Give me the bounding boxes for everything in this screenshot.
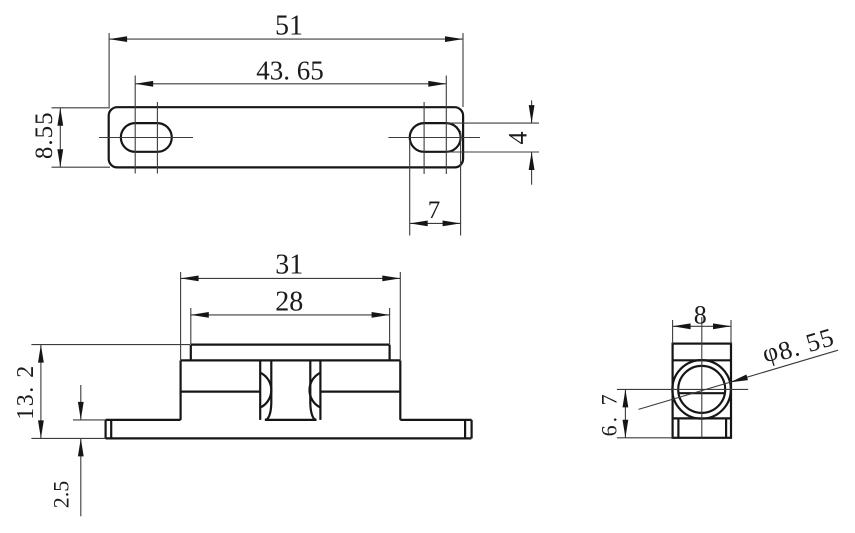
- front slot right wall outer line: [319, 360, 321, 420]
- leader arrowhead: [730, 375, 748, 383]
- side flange line: [673, 417, 731, 419]
- dim 13.2 line: [40, 345, 42, 439]
- front slot bottom line: [265, 419, 317, 421]
- side vertical centerline: [701, 317, 703, 438]
- dim 28 extension right: [389, 308, 391, 344]
- dim 13.2 arrow bottom: [38, 420, 44, 438]
- svg-text:8: 8: [694, 301, 707, 330]
- svg-text:43. 65: 43. 65: [256, 56, 324, 86]
- dim 4 arrow top (points down): [529, 105, 535, 123]
- dim 31 extension left: [180, 272, 182, 360]
- dim 8 extension left: [672, 320, 674, 344]
- front block top line: [181, 359, 401, 361]
- side bottom band right vertical: [725, 418, 727, 437]
- front block right edge: [399, 360, 401, 420]
- front block mid line left: [181, 391, 261, 393]
- dim 28 line: [191, 314, 390, 316]
- leader line phi 8.55: [639, 350, 839, 409]
- dim 6.7 line: [624, 389, 626, 437]
- side outer circle (hole 8.55): [672, 360, 731, 419]
- front slot right wall arc: [310, 373, 321, 408]
- dim 2.5 line upper: [80, 385, 82, 420]
- front top plate right cap: [389, 345, 391, 361]
- front base right step line: [464, 420, 466, 439]
- top view plate outline: [109, 107, 463, 167]
- front slot left wall inner line: [270, 360, 272, 403]
- dim 28 arrow right: [372, 312, 390, 318]
- right slot vertical centerline A: [423, 102, 425, 174]
- side bottom band left vertical: [677, 418, 679, 437]
- dim 31 line: [181, 277, 401, 279]
- dim 51 extension right: [462, 33, 464, 107]
- svg-text:51: 51: [275, 11, 303, 42]
- dim 7 extension left: [409, 140, 411, 236]
- dim 4 extension top: [447, 122, 539, 124]
- right slot vertical centerline B (extension for 43.65): [445, 76, 447, 175]
- dim 31 extension right: [399, 272, 401, 360]
- dim 28 arrow left: [191, 312, 209, 318]
- dim 4 extension bottom: [447, 151, 539, 153]
- svg-text:13. 2: 13. 2: [13, 364, 39, 420]
- dim 31 arrow right: [382, 276, 400, 282]
- dim 6.7 extension bottom: [617, 437, 673, 439]
- side view outline rect: [673, 344, 731, 438]
- dim 43.65 arrow left: [135, 81, 153, 87]
- svg-text:6. 7: 6. 7: [597, 391, 622, 436]
- dim 7 arrow left (points left): [410, 221, 428, 227]
- dim 8.55 line: [59, 108, 61, 167]
- front top plate left cap: [190, 345, 192, 361]
- svg-text:8.55: 8.55: [31, 111, 58, 159]
- dim 28 extension left: [190, 308, 192, 344]
- dim 8.55 arrow top: [57, 108, 63, 126]
- dim 51 line: [109, 38, 463, 40]
- dim 43.65 line: [135, 83, 446, 85]
- dim 8 arrow left (points left): [673, 323, 691, 329]
- dim 7 line: [410, 222, 461, 224]
- dim 7 extension right: [460, 131, 462, 236]
- dim 2.5 arrow bottom (points up): [78, 438, 84, 456]
- dim 6.7 arrow bottom: [623, 420, 629, 438]
- side horizontal centerline: [617, 388, 748, 390]
- left slot vertical centerline A (extension for 43.65): [134, 76, 136, 174]
- dim 8 extension right: [730, 320, 732, 344]
- left slot horizontal centerline: [99, 137, 193, 139]
- front slot left fillet: [265, 403, 271, 420]
- front base left step line: [110, 420, 112, 439]
- side top band line: [673, 359, 731, 361]
- dim 51 arrow right: [445, 36, 463, 42]
- svg-text:7: 7: [428, 197, 441, 224]
- front slot right wall inner line: [309, 360, 311, 403]
- svg-text:31: 31: [275, 250, 303, 281]
- front block mid line right: [320, 391, 400, 393]
- dim 6.7 arrow top: [623, 389, 629, 407]
- right slot horizontal centerline: [388, 137, 480, 139]
- dim 8.55 arrow bottom: [57, 149, 63, 167]
- dim 2.5 extension line: [73, 419, 106, 421]
- front slot right fillet: [310, 403, 316, 420]
- front flange top right: [400, 419, 471, 421]
- dim 51 extension left: [108, 33, 110, 107]
- dim 2.5 arrow top (points down): [78, 402, 84, 420]
- dim 2.5 line lower: [80, 438, 82, 516]
- front slot left wall arc: [260, 373, 271, 408]
- front block left edge: [180, 360, 182, 420]
- front slot left wall outer line: [259, 360, 261, 420]
- dim 4 line upper: [531, 100, 533, 123]
- dim 8 arrow right (points right): [713, 323, 731, 329]
- left slot obround: [121, 123, 172, 152]
- dim 7 arrow right (points right): [443, 221, 461, 227]
- front flange top left: [106, 419, 181, 421]
- dim 8 line: [673, 325, 731, 327]
- svg-text:4: 4: [504, 132, 533, 145]
- dim 31 arrow left: [181, 276, 199, 282]
- front top plate top line: [191, 344, 390, 346]
- svg-text:2.5: 2.5: [48, 481, 73, 509]
- dim 13.2 extension bottom: [31, 437, 105, 439]
- side chord line: [679, 392, 726, 394]
- dim 8.55 extension bottom: [52, 166, 111, 168]
- front base bottom line: [106, 437, 472, 439]
- side inner circle: [678, 366, 725, 413]
- dim 4 arrow bottom (points up): [529, 152, 535, 170]
- front base left end cap: [104, 420, 106, 439]
- dim 51 arrow left: [109, 36, 127, 42]
- front base right end cap: [471, 420, 473, 439]
- left slot vertical centerline B: [156, 102, 158, 174]
- dim 43.65 arrow right: [428, 81, 446, 87]
- dim 4 line lower: [531, 152, 533, 185]
- dim 8.55 extension top: [52, 107, 111, 109]
- dim 13.2 extension top: [31, 344, 190, 346]
- svg-text:28: 28: [275, 287, 303, 318]
- dim 13.2 arrow top: [38, 345, 44, 363]
- right slot obround: [410, 123, 461, 152]
